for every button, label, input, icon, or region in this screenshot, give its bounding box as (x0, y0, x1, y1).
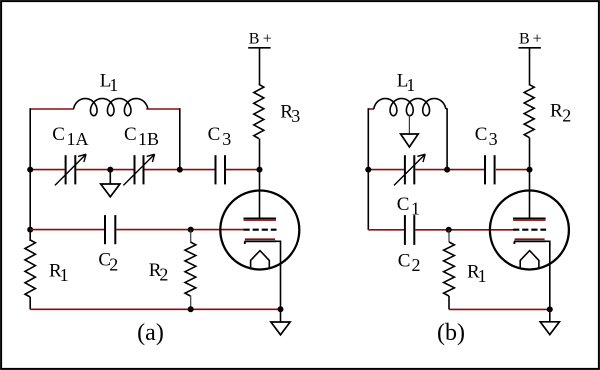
wire R2 to plate node (b) (529, 138, 531, 170)
cathode electrode (b) (515, 238, 545, 240)
node L1 to tank junction (a) (177, 167, 183, 173)
capacitor C2 (b) (404, 215, 406, 245)
node R1 top (b) (446, 227, 452, 233)
wire L1 center tap (b) (408, 115, 410, 134)
wire bottom (b) (449, 308, 550, 310)
wire R2 bottom stub (a) (190, 296, 192, 310)
wire tank segment 3 (b) (496, 169, 530, 171)
svg-text:1B: 1B (138, 129, 159, 149)
wire R2 top stub (a) (190, 230, 192, 242)
wire grid segment 1 (a) (30, 229, 104, 231)
svg-text:1: 1 (411, 199, 420, 219)
svg-text:2: 2 (109, 254, 118, 274)
node L1 right junction (b) (444, 167, 450, 173)
control grid (dashed) (b) (513, 229, 546, 231)
wire cathode lead (a) (275, 241, 280, 309)
wire tank segment 3 (a) (145, 169, 215, 171)
wire grid segment 2 (b) (415, 229, 513, 231)
cathode electrode (a) (245, 238, 275, 240)
svg-text:3: 3 (222, 129, 231, 149)
resistor R1 (b) (444, 242, 455, 296)
svg-text:C: C (208, 124, 221, 145)
svg-text:1: 1 (478, 266, 487, 286)
heater filament (a) (251, 251, 270, 269)
wire left vertical (a) (29, 170, 31, 241)
node R2 bottom (a) (188, 306, 194, 312)
ground tank tap (a) (101, 184, 120, 197)
heater filament (b) (520, 251, 539, 269)
plate electrode (a) (244, 217, 277, 219)
wire B+ to R2 (b) (529, 48, 531, 86)
capacitor C1A (65, 155, 67, 184)
B+ terminal (b) (518, 47, 541, 49)
svg-text:2: 2 (562, 105, 571, 125)
svg-text:C: C (397, 194, 410, 215)
svg-text:R: R (550, 101, 563, 122)
wire grid segment 2 (a) (116, 229, 243, 231)
svg-text:2: 2 (412, 255, 421, 275)
ground L1 tap (b) (401, 134, 419, 147)
svg-text:+: + (533, 31, 542, 48)
svg-text:C: C (52, 124, 65, 145)
node plate junction (b) (527, 167, 533, 173)
wire L1 right leg down (a) (179, 108, 181, 169)
node tank left junction (b) (365, 167, 371, 173)
svg-text:2: 2 (159, 265, 168, 285)
node cathode ground junction (a) (278, 306, 284, 312)
wire L1 left stub (b) (368, 108, 374, 110)
svg-text:B: B (519, 31, 530, 48)
wire plate lead (b) (529, 170, 531, 219)
control grid (dashed) (a) (244, 229, 277, 231)
capacitor C1B (134, 155, 136, 184)
svg-text:1: 1 (109, 75, 118, 95)
inductor L1 (b) (374, 99, 446, 116)
wire L1 right leg down (b) (446, 108, 448, 169)
resistor R3 (254, 84, 264, 138)
svg-text:C: C (475, 124, 488, 145)
wire R1 bottom (b) (448, 296, 450, 309)
B+ terminal (a) (248, 47, 270, 49)
svg-text:1A: 1A (67, 129, 89, 149)
wire R1 bottom (a) (29, 297, 31, 309)
wire left vertical (b) (367, 170, 369, 230)
wire tank segment 4 (a) (226, 169, 260, 171)
wire tank segment 1 (a) (30, 169, 64, 171)
tube envelope circle (b) (490, 191, 569, 270)
wire grid segment 1 (b) (368, 229, 404, 231)
inductor L1 (a) (74, 99, 148, 116)
node grid wire left (a) (27, 227, 33, 233)
svg-text:(a): (a) (137, 320, 164, 346)
capacitor C3 (b) (484, 155, 486, 184)
wire plate lead (a) (259, 170, 261, 219)
wire bottom (a) (30, 308, 280, 310)
resistor R2 (a) (185, 242, 196, 296)
svg-text:C: C (398, 251, 411, 272)
node tank left junction (a) (27, 167, 33, 173)
plate electrode (b) (513, 217, 546, 219)
wire ground stub (b) (549, 309, 551, 321)
svg-text:1: 1 (406, 75, 415, 95)
wire ground stub (a) (280, 309, 282, 322)
svg-text:1: 1 (60, 265, 69, 285)
wire cathode lead (b) (545, 241, 550, 309)
wire R3 to plate node (a) (259, 139, 261, 170)
svg-text:(b): (b) (437, 320, 465, 346)
capacitor C1 (b) (404, 155, 406, 184)
wire L1 right stub (a) (146, 108, 180, 110)
node plate junction (a) (257, 167, 263, 173)
ground cathode (b) (540, 322, 559, 335)
ground cathode (a) (271, 322, 290, 335)
capacitor C3 (a) (215, 155, 217, 184)
wire tank segment 1 (b) (368, 169, 404, 171)
wire ground tap stub (a) (109, 170, 111, 184)
resistor R2 (b) (524, 84, 534, 137)
tube envelope circle (a) (220, 191, 299, 270)
svg-text:C: C (124, 124, 137, 145)
node R2 top (a) (188, 227, 194, 233)
wire L1 left leg down (b) (367, 108, 369, 169)
wire B+ to R3 (a) (259, 48, 261, 85)
svg-text:3: 3 (489, 129, 498, 149)
resistor R1 (a) (25, 240, 35, 297)
svg-text:B: B (249, 30, 260, 47)
svg-text:3: 3 (291, 106, 300, 126)
wire tank segment 2 (a) (76, 169, 133, 171)
capacitor C2 (a) (104, 215, 106, 244)
wire tank segment 2 (b) (415, 169, 484, 171)
wire L1 right stub (b) (446, 108, 447, 110)
svg-text:+: + (263, 30, 272, 47)
wire R1 top stub (b) (448, 230, 450, 242)
node cathode ground junction (b) (547, 306, 553, 312)
wire L1 left leg down (a) (29, 108, 31, 169)
wire L1 left stub (a) (30, 108, 74, 110)
node tank ground tap (a) (107, 167, 113, 173)
